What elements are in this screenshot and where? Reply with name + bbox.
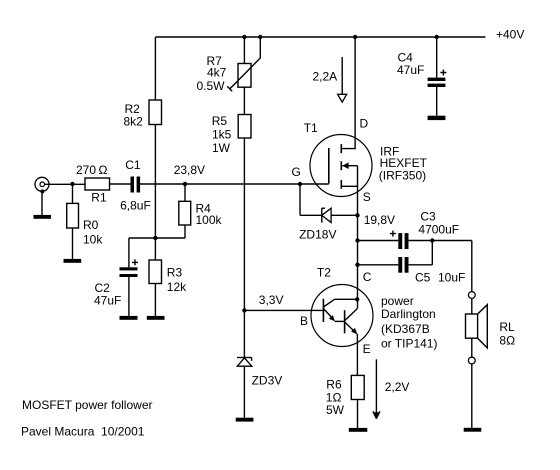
svg-text:0.5W: 0.5W [197, 79, 226, 93]
svg-text:or TIP141): or TIP141) [381, 336, 437, 350]
svg-text:Pavel Macura 10/2001: Pavel Macura 10/2001 [21, 425, 145, 439]
svg-text:C: C [363, 270, 372, 284]
svg-text:ZD18V: ZD18V [299, 228, 336, 242]
svg-text:+40V: +40V [496, 28, 524, 42]
svg-text:47uF: 47uF [397, 63, 424, 77]
svg-text:3,3V: 3,3V [259, 293, 284, 307]
svg-text:ZD3V: ZD3V [252, 374, 283, 388]
svg-text:G: G [292, 165, 301, 179]
svg-text:10k: 10k [83, 233, 103, 247]
svg-text:8k2: 8k2 [124, 115, 144, 129]
svg-text:12k: 12k [167, 280, 187, 294]
svg-text:Ω: Ω [99, 163, 108, 177]
svg-text:B: B [300, 314, 308, 328]
svg-text:MOSFET power follower: MOSFET power follower [22, 398, 152, 412]
svg-text:D: D [360, 117, 369, 131]
svg-text:1W: 1W [212, 141, 231, 155]
svg-text:270: 270 [76, 163, 96, 177]
svg-text:6,8uF: 6,8uF [120, 199, 151, 213]
svg-text:C5: C5 [415, 271, 431, 285]
svg-text:(IRF350): (IRF350) [379, 168, 426, 182]
svg-text:5W: 5W [326, 403, 345, 417]
svg-text:S: S [363, 190, 371, 204]
svg-text:8Ω: 8Ω [499, 334, 515, 348]
svg-text:23,8V: 23,8V [174, 163, 205, 177]
svg-text:4700uF: 4700uF [418, 223, 459, 237]
svg-text:2,2A: 2,2A [313, 70, 338, 84]
svg-text:47uF: 47uF [94, 294, 121, 308]
svg-text:(KD367B: (KD367B [381, 322, 430, 336]
svg-text:E: E [363, 342, 371, 356]
svg-text:R1: R1 [91, 191, 107, 205]
svg-text:R5: R5 [212, 114, 228, 128]
svg-text:R0: R0 [83, 218, 99, 232]
svg-text:C3: C3 [420, 210, 436, 224]
svg-text:19,8V: 19,8V [364, 213, 395, 227]
svg-text:2,2V: 2,2V [385, 380, 410, 394]
svg-text:R6: R6 [326, 377, 342, 391]
svg-text:10uF: 10uF [438, 271, 465, 285]
svg-text:1k5: 1k5 [212, 128, 232, 142]
svg-text:Darlington: Darlington [381, 307, 436, 321]
svg-text:RL: RL [499, 320, 515, 334]
svg-text:power: power [381, 294, 414, 308]
svg-text:T1: T1 [304, 121, 318, 135]
svg-text:C1: C1 [125, 158, 141, 172]
svg-text:R3: R3 [167, 266, 183, 280]
svg-text:T2: T2 [317, 266, 331, 280]
svg-text:4k7: 4k7 [207, 65, 227, 79]
svg-text:100k: 100k [196, 213, 223, 227]
